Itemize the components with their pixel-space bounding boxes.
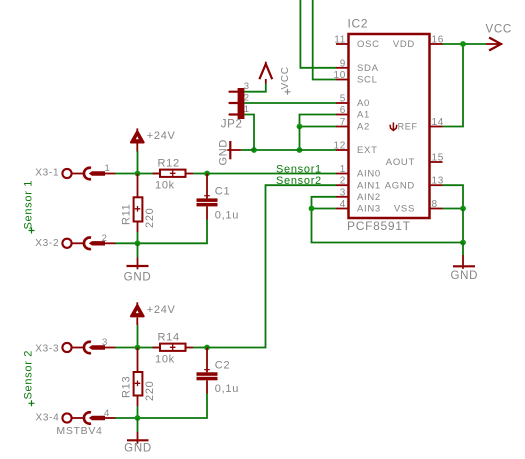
- junction AIN2/AIN3 node: [309, 206, 315, 212]
- svg-text:+24V: +24V: [147, 304, 176, 316]
- wire SCL vertical from top edge to pin 10: [313, 0, 336, 80]
- svg-text:Sensor 2: Sensor 2: [23, 350, 35, 400]
- svg-text:8: 8: [432, 199, 438, 210]
- supply +24V arrow sensor1: [131, 128, 144, 152]
- pin 6 A1 stub: [336, 114, 349, 116]
- ground GND sensor1: [127, 243, 149, 269]
- wire A2 node down to EXT line: [299, 127, 301, 151]
- wire X3-4 to junction: [115, 417, 138, 419]
- svg-text:4: 4: [340, 199, 346, 210]
- svg-text:15: 15: [432, 153, 445, 164]
- svg-text:A1: A1: [357, 110, 370, 121]
- pin 9 SDA stub: [336, 67, 349, 69]
- svg-text:VCC: VCC: [486, 24, 512, 36]
- origin cross VCC label: [285, 89, 291, 95]
- svg-text:AOUT: AOUT: [386, 157, 415, 168]
- junction C2 top node: [204, 345, 210, 351]
- wire A2 pin7: [300, 126, 337, 128]
- svg-text:6: 6: [340, 105, 346, 116]
- JP2 pin stub 2: [230, 102, 239, 104]
- junction X3-3/+24V/R13 node: [135, 345, 141, 351]
- pin 1 AIN0 stub: [336, 173, 349, 175]
- wire +24V to X3-3 row: [137, 325, 139, 348]
- capacitor C1: [197, 174, 218, 220]
- svg-text:1: 1: [105, 163, 111, 174]
- svg-text:C1: C1: [215, 185, 230, 197]
- svg-text:AIN1: AIN1: [357, 180, 381, 191]
- svg-text:R14: R14: [158, 331, 180, 343]
- svg-text:C2: C2: [215, 360, 230, 372]
- svg-text:3: 3: [244, 81, 250, 92]
- svg-text:SCL: SCL: [357, 75, 378, 86]
- junction X3-2 node: [135, 240, 141, 246]
- pin 13 AGND stub: [430, 184, 443, 186]
- svg-text:3: 3: [340, 187, 346, 198]
- svg-text:GND: GND: [124, 443, 152, 455]
- svg-text:3: 3: [102, 337, 108, 348]
- svg-text:220: 220: [144, 381, 156, 401]
- wire VSS pin8 to right bus: [443, 208, 464, 210]
- pin 4 AIN3 stub: [336, 208, 349, 210]
- supply VCC arrow right: [486, 38, 502, 51]
- resistor R14: [153, 344, 194, 351]
- pin 2 AIN1 stub: [336, 184, 349, 186]
- svg-text:A2: A2: [357, 122, 370, 133]
- junction VDD/VREF node: [460, 41, 466, 47]
- wire C1 bottom to X3-2 row: [138, 220, 208, 244]
- svg-text:EXT: EXT: [357, 145, 378, 156]
- resistor R11 vertical: [134, 174, 143, 233]
- wire C2 bottom to X3-4 row: [138, 394, 208, 419]
- svg-text:+24V: +24V: [147, 130, 176, 142]
- junction A2 node: [297, 124, 303, 130]
- wire AIN2 pin3 down-jog: [312, 197, 337, 209]
- pin 5 A0 stub: [336, 102, 349, 104]
- junction X3-1/+24V/R11 node: [135, 171, 141, 177]
- svg-text:R11: R11: [120, 204, 132, 225]
- svg-text:X3-2: X3-2: [35, 238, 59, 249]
- svg-text:1: 1: [340, 164, 346, 175]
- svg-text:AIN0: AIN0: [357, 169, 381, 180]
- resistor R12: [153, 170, 194, 177]
- svg-text:IC2: IC2: [348, 17, 369, 31]
- wire VDD pin16 to VCC arrow: [443, 43, 487, 45]
- wire Sensor1 net to AIN0: [207, 173, 336, 175]
- svg-text:AIN3: AIN3: [357, 204, 381, 215]
- wire JP2 pin1 down to EXT line: [244, 115, 254, 151]
- origin cross Sensor 1 label: [29, 228, 35, 234]
- connector X3-4: [62, 412, 116, 424]
- wire EXT pin12: [254, 149, 336, 151]
- svg-text:GND: GND: [124, 272, 152, 284]
- resistor R13 vertical: [134, 348, 143, 407]
- svg-text:2: 2: [244, 93, 250, 104]
- svg-text:14: 14: [432, 117, 445, 128]
- svg-text:A0: A0: [357, 98, 370, 109]
- connector X3-2: [62, 238, 116, 250]
- wire AIN3 pin4: [312, 208, 337, 210]
- pin name VREF down-arrow: [390, 122, 397, 130]
- svg-text:10k: 10k: [155, 179, 175, 191]
- svg-text:X3-1: X3-1: [35, 168, 59, 179]
- connector X3-1: [62, 168, 116, 180]
- pin 16 VDD stub: [430, 43, 443, 45]
- wire SDA vertical from top edge to pin 9: [300, 0, 336, 68]
- svg-text:R13: R13: [120, 376, 132, 398]
- svg-text:220: 220: [144, 208, 156, 228]
- ground GND sensor2: [127, 418, 149, 444]
- capacitor C2: [197, 348, 218, 394]
- svg-text:VDD: VDD: [393, 39, 415, 50]
- svg-text:X3-4: X3-4: [36, 413, 60, 424]
- wire VCC branch down to VREF pin14: [443, 44, 464, 127]
- svg-text:JP2: JP2: [221, 119, 243, 131]
- wire JP2 pin2 to A0 pin5: [244, 102, 336, 104]
- pin 7 A2 stub: [336, 126, 349, 128]
- wire R14 to C2 node: [193, 347, 207, 349]
- JP2 pin stub 3: [230, 91, 239, 93]
- wire AGND pin13 to right bus: [443, 185, 464, 208]
- svg-text:Sensor 1: Sensor 1: [23, 180, 35, 230]
- svg-text:2: 2: [340, 176, 346, 187]
- svg-text:11: 11: [334, 35, 346, 46]
- svg-text:MSTBV4: MSTBV4: [56, 425, 102, 437]
- pin 8 VSS stub: [430, 208, 443, 210]
- svg-text:1: 1: [244, 104, 250, 115]
- svg-text:GND: GND: [450, 270, 478, 282]
- junction bottom rail right: [460, 240, 466, 246]
- supply +24V arrow sensor2: [131, 302, 144, 325]
- svg-text:OSC: OSC: [357, 39, 380, 50]
- connector JP2 body: [238, 88, 245, 119]
- supply VCC arrow up at JP2: [259, 62, 272, 84]
- svg-text:10: 10: [333, 70, 346, 81]
- wire right bus down to bottom rail: [462, 209, 464, 243]
- wire A1 pin6 jog down: [300, 115, 337, 127]
- wire +24V to X3-1 row: [137, 151, 139, 174]
- svg-text:VSS: VSS: [394, 204, 415, 215]
- wire Sensor2 net to AIN1: [207, 185, 336, 347]
- JP2 pin stub 1: [230, 113, 239, 115]
- pin 15 AOUT stub (unconnected): [430, 161, 443, 163]
- svg-text:10k: 10k: [155, 353, 175, 365]
- svg-text:0,1u: 0,1u: [215, 209, 239, 221]
- wire X3-1 to R12: [115, 173, 160, 175]
- svg-text:PCF8591T: PCF8591T: [347, 219, 411, 233]
- svg-text:2: 2: [102, 233, 108, 244]
- connector X3-3: [62, 342, 116, 354]
- origin cross Sensor 2 label: [29, 400, 35, 406]
- junction C1 top node: [204, 171, 210, 177]
- svg-text:7: 7: [340, 117, 346, 128]
- pin 3 AIN2 stub: [336, 196, 349, 198]
- svg-text:REF: REF: [398, 122, 418, 132]
- pin 12 EXT stub: [336, 149, 349, 151]
- junction JP2 pin1 node: [251, 147, 257, 153]
- ground GND rotated at JP2: [227, 141, 254, 159]
- wire R12 to C1 node: [193, 173, 207, 175]
- svg-text:16: 16: [432, 35, 445, 46]
- svg-text:0,1u: 0,1u: [215, 383, 239, 395]
- svg-text:VCC: VCC: [280, 66, 291, 89]
- svg-text:Sensor1: Sensor1: [276, 163, 322, 175]
- pin 10 SCL stub: [336, 79, 349, 81]
- svg-text:R12: R12: [158, 157, 180, 169]
- pin 11 OSC stub (unconnected): [336, 43, 349, 45]
- svg-text:AGND: AGND: [385, 180, 415, 191]
- svg-text:13: 13: [432, 176, 445, 187]
- ground GND right of IC: [453, 243, 475, 269]
- IC U1 body PCF8591T: [349, 34, 430, 218]
- wire R13 to X3-4 row: [137, 406, 139, 418]
- svg-text:GND: GND: [218, 139, 230, 166]
- wire X3-3 to R14: [115, 347, 160, 349]
- wire X3-2 to junction: [115, 242, 138, 244]
- svg-text:4: 4: [104, 408, 110, 419]
- wire JP2 pin3 to VCC arrow: [244, 84, 266, 92]
- svg-text:X3-3: X3-3: [35, 344, 59, 355]
- junction EXT node: [297, 147, 303, 153]
- wire bottom rail AIN3 to right bus: [312, 209, 464, 243]
- svg-text:SDA: SDA: [357, 63, 379, 74]
- junction VSS node: [460, 206, 466, 212]
- svg-text:AIN2: AIN2: [357, 192, 381, 203]
- junction X3-4 node: [135, 415, 141, 421]
- svg-text:5: 5: [340, 94, 346, 105]
- svg-text:9: 9: [340, 58, 346, 69]
- wire R11 to X3-2 row: [137, 232, 139, 243]
- pin 14 VREF stub: [430, 126, 443, 128]
